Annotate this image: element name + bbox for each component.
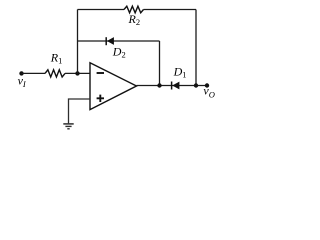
svg-text:vI: vI	[18, 74, 27, 89]
node A junction dot	[75, 71, 79, 75]
diode D1	[172, 82, 180, 90]
svg-text:R1: R1	[50, 51, 63, 66]
svg-text:R2: R2	[128, 12, 141, 27]
wire noninverting input	[69, 99, 91, 123]
wire op-amp output to vO	[137, 85, 208, 87]
wire top loop left segment	[78, 9, 125, 11]
svg-text:D2: D2	[112, 45, 126, 60]
label D2	[112, 45, 126, 60]
diode D2	[106, 37, 114, 45]
wire inner loop horizontal	[78, 40, 160, 42]
wire R1 to node A	[65, 72, 90, 74]
node B junction dot	[194, 83, 198, 87]
ground	[63, 124, 73, 129]
resistor R2	[124, 6, 144, 13]
wire node A up to feedback loops	[77, 10, 79, 74]
wire top loop right segment	[144, 9, 197, 11]
op-amp U1	[90, 63, 137, 110]
wire inner loop right vertical down to node C	[159, 41, 161, 86]
svg-text:D1: D1	[173, 65, 187, 80]
label D1	[173, 65, 187, 80]
node C junction dot	[157, 83, 161, 87]
output terminal vO	[205, 83, 209, 87]
label vI	[18, 74, 27, 89]
resistor R1	[45, 70, 65, 77]
wire input to R1	[22, 72, 46, 74]
wire top loop right vertical down to node B	[195, 10, 197, 86]
label R1	[50, 51, 63, 66]
label vO	[203, 84, 214, 100]
label R2	[128, 12, 141, 27]
input terminal vI	[19, 71, 23, 75]
